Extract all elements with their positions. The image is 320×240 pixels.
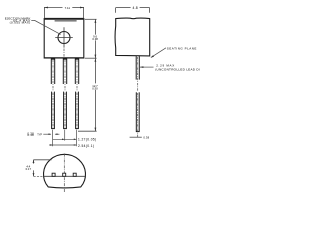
bottom view left dimension text bbox=[26, 164, 32, 171]
front view body bbox=[44, 19, 84, 58]
lead width dimension text bbox=[27, 131, 42, 137]
lead 3 lower segment bbox=[75, 92, 79, 129]
ejection mark leader line bbox=[31, 20, 60, 34]
right vertical dimension line (body height + lead length) bbox=[78, 19, 97, 131]
circle crosshair vertical bbox=[63, 27, 65, 47]
front body inner top step line bbox=[55, 20, 77, 22]
lead 2 lower segment bbox=[63, 92, 67, 129]
circle crosshair horizontal bbox=[55, 37, 73, 39]
lead diameter callout leader bbox=[140, 66, 154, 68]
side view lead lower centerline bbox=[137, 93, 139, 137]
lead width dimension arrows bbox=[43, 133, 59, 135]
svg-text:2.54(0.1): 2.54(0.1) bbox=[78, 144, 94, 148]
side view lead centerline bbox=[137, 57, 139, 91]
bottom view vertical centerline bbox=[63, 154, 65, 193]
lead 2 upper segment bbox=[63, 58, 66, 84]
svg-text:1.27(0.05): 1.27(0.05) bbox=[78, 137, 97, 141]
svg-text:TYP: TYP bbox=[37, 134, 42, 137]
lead 1 upper segment bbox=[51, 58, 54, 84]
side view top dimension bbox=[116, 8, 150, 13]
right dimension text body height bbox=[92, 34, 98, 41]
bottom view lead square 3 bbox=[73, 173, 76, 176]
svg-text:4.8: 4.8 bbox=[132, 6, 137, 10]
svg-text:0.50: 0.50 bbox=[92, 87, 98, 91]
side lead end minimum tick bbox=[130, 136, 142, 138]
lead 3 upper segment bbox=[75, 58, 78, 84]
ejection mark circle bbox=[58, 32, 70, 44]
front body vertical centerline bbox=[63, 49, 65, 58]
front width dimension line bbox=[44, 7, 83, 18]
side view lead upper segment bbox=[136, 56, 139, 79]
seating plane leader bbox=[151, 48, 166, 58]
svg-text:0.38: 0.38 bbox=[92, 37, 98, 41]
svg-text:SEATING PLANE: SEATING PLANE bbox=[167, 46, 197, 50]
lead centerlines upper bbox=[53, 60, 77, 91]
svg-text:(0.055 MAX): (0.055 MAX) bbox=[10, 21, 31, 25]
right dimension arrows bbox=[95, 19, 97, 131]
svg-text:7.11: 7.11 bbox=[65, 6, 71, 10]
right dimension text lead length bbox=[92, 84, 98, 91]
lead pitch dimension row 1 bbox=[53, 138, 77, 140]
lead diameter callout text bbox=[155, 64, 203, 72]
side view lead lower segment bbox=[136, 92, 140, 131]
extension line body bottom bbox=[85, 57, 97, 59]
svg-text:0.38: 0.38 bbox=[27, 133, 34, 137]
bottom view lead square 2 bbox=[63, 173, 66, 176]
extension line body top bbox=[85, 18, 97, 20]
front width dimension arrows bbox=[44, 7, 83, 9]
extension line lead end bbox=[78, 130, 97, 132]
lead pitch dimension ticks bbox=[53, 130, 77, 147]
svg-text:0.38: 0.38 bbox=[143, 136, 149, 140]
lead pitch dimension row 2 bbox=[49, 144, 76, 146]
lead centerlines lower bbox=[53, 93, 77, 128]
bottom view chord line bbox=[44, 175, 86, 177]
bottom view outline bbox=[44, 154, 86, 188]
svg-text:0.17: 0.17 bbox=[26, 167, 32, 171]
bottom view chord dashed extension bbox=[34, 175, 44, 177]
lead 1 lower segment bbox=[51, 92, 55, 129]
bottom view left dimension bbox=[34, 160, 52, 177]
bottom view lead square 1 bbox=[52, 173, 55, 176]
ejection mark note text bbox=[5, 16, 31, 24]
side view body bbox=[115, 18, 150, 56]
svg-text:(UNCONTROLLED LEAD DIA): (UNCONTROLLED LEAD DIA) bbox=[155, 67, 200, 71]
